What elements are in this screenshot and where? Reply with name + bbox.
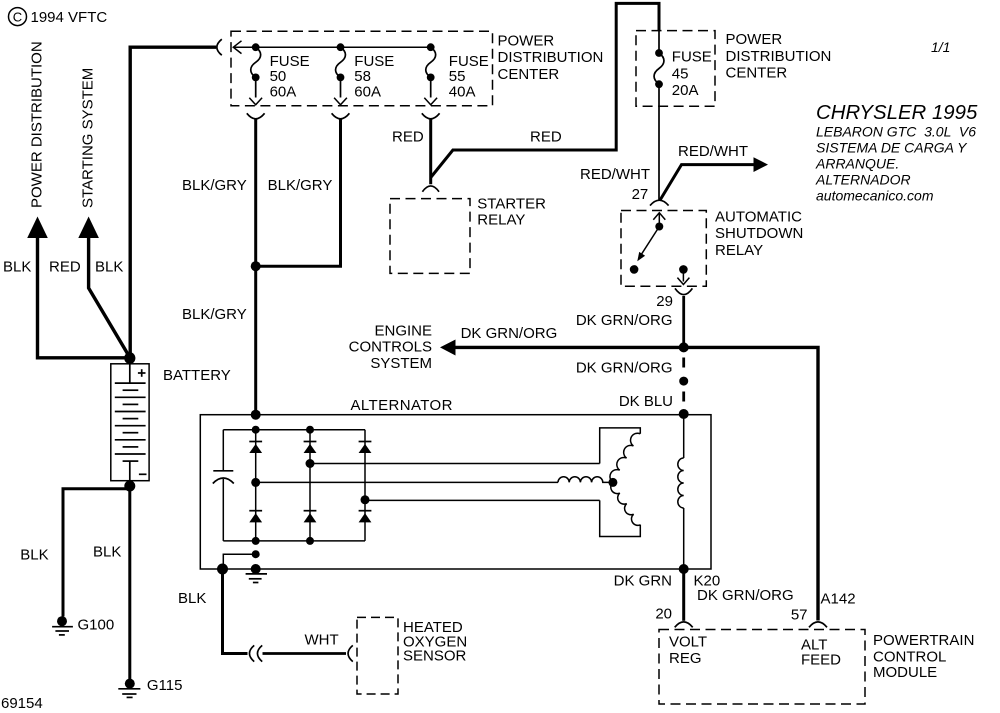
node top bus left	[252, 426, 260, 434]
wire BLK/GRY from fuse 50 to alternator	[254, 118, 257, 413]
svg-text:BLK: BLK	[3, 259, 31, 276]
connector pair in BLK/WHT wire	[249, 645, 262, 661]
svg-text:20A: 20A	[672, 82, 699, 99]
svg-text:STARTING SYSTEM: STARTING SYSTEM	[80, 68, 97, 208]
svg-text:DK GRN/ORG: DK GRN/ORG	[576, 359, 673, 376]
svg-text:FUSE: FUSE	[672, 49, 712, 66]
label ENGINE CONTROLS SYSTEM	[349, 323, 432, 372]
arrow to POWER DISTRIBUTION	[27, 217, 130, 358]
connector at volt reg pin 20	[675, 622, 693, 627]
svg-text:DK GRN/ORG: DK GRN/ORG	[697, 587, 794, 604]
wire PDC1 internal bus	[233, 46, 431, 48]
node stator center	[608, 478, 617, 487]
wire rectifier bottom bus	[223, 540, 365, 542]
svg-text:BLK: BLK	[20, 547, 48, 564]
wire DK GRN/ORG from ASD relay	[682, 296, 685, 347]
svg-text:1/1: 1/1	[931, 39, 950, 55]
svg-text:40A: 40A	[449, 83, 476, 100]
svg-text:CHRYSLER 1995: CHRYSLER 1995	[816, 102, 978, 124]
wire stator phase 2	[256, 481, 558, 483]
svg-text:DK GRN/ORG: DK GRN/ORG	[576, 312, 673, 329]
svg-text:27: 27	[632, 186, 649, 203]
label HEATED OXYGEN SENSOR	[403, 619, 467, 665]
svg-text:POWER DISTRIBUTION: POWER DISTRIBUTION	[29, 41, 46, 208]
svg-text:20: 20	[655, 606, 672, 623]
svg-text:BLK: BLK	[95, 259, 123, 276]
fuse 45 20A	[654, 31, 664, 88]
svg-text:DK GRN/ORG: DK GRN/ORG	[461, 325, 558, 342]
stator frame lower	[600, 500, 641, 536]
svg-text:ARRANQUE.: ARRANQUE.	[815, 156, 899, 172]
connector at starter relay	[422, 186, 439, 192]
svg-text:BLK: BLK	[178, 590, 206, 607]
svg-text:DISTRIBUTION: DISTRIBUTION	[498, 49, 604, 66]
svg-text:RED/WHT: RED/WHT	[678, 143, 748, 160]
wire dashed DK GRN/ORG to DK BLU	[679, 358, 689, 420]
connector below fuse 58	[332, 113, 350, 119]
label FUSE 45 20A	[672, 49, 712, 100]
svg-text:G115: G115	[147, 677, 183, 694]
svg-text:DK BLU: DK BLU	[619, 393, 673, 410]
node alternator case ground	[217, 564, 228, 575]
svg-text:BLK/GRY: BLK/GRY	[182, 306, 247, 323]
svg-text:POWERTRAIN: POWERTRAIN	[873, 632, 974, 649]
alternator box	[200, 415, 711, 569]
connector at PDC1 input	[217, 39, 222, 55]
svg-text:1994 VFTC: 1994 VFTC	[31, 9, 108, 26]
fuse 58 60A	[334, 43, 347, 105]
wire RED branch to PDC2	[431, 3, 659, 177]
svg-text:CONTROLS: CONTROLS	[349, 339, 432, 356]
svg-text:60A: 60A	[354, 83, 381, 100]
rectifier diode column 2	[304, 430, 317, 541]
connector at heated oxygen sensor	[348, 645, 353, 661]
svg-text:VOLT: VOLT	[669, 633, 707, 650]
svg-text:BLK/GRY: BLK/GRY	[182, 177, 247, 194]
ASD relay switch arm	[630, 227, 660, 274]
svg-text:WHT: WHT	[305, 632, 339, 649]
stator winding left	[558, 477, 613, 483]
svg-text:DISTRIBUTION: DISTRIBUTION	[726, 48, 832, 65]
svg-text:POWER: POWER	[726, 31, 783, 48]
svg-text:BLK/GRY: BLK/GRY	[268, 177, 333, 194]
ground G115	[118, 679, 140, 698]
wire ground stub inside alternator	[223, 550, 259, 569]
svg-text:RED: RED	[49, 259, 81, 276]
svg-text:RED: RED	[530, 128, 562, 145]
svg-text:FEED: FEED	[801, 652, 841, 669]
connector below fuse 55	[422, 113, 440, 119]
node BLK/GRY junction	[251, 261, 261, 271]
fuse 50 60A	[249, 43, 262, 105]
node rotor bottom	[679, 564, 689, 574]
label STARTER RELAY	[477, 195, 546, 228]
wire fuse 45 to ASD relay	[658, 88, 660, 200]
svg-text:45: 45	[672, 65, 689, 82]
svg-text:RED/WHT: RED/WHT	[580, 166, 650, 183]
wire BLK battery to G100	[63, 489, 130, 617]
connector at alt feed pin 57	[809, 622, 827, 627]
stator winding lower	[611, 482, 641, 525]
svg-text:MODULE: MODULE	[873, 664, 937, 681]
node battery positive junction	[124, 352, 135, 363]
svg-text:ENGINE: ENGINE	[374, 323, 432, 340]
node alternator B+ on box edge	[251, 410, 261, 420]
svg-text:G100: G100	[78, 616, 115, 633]
node bottom bus middle	[306, 537, 314, 545]
label POWER DISTRIBUTION CENTER 1	[498, 32, 604, 82]
wire BLK from alternator to connector	[223, 569, 248, 654]
svg-text:CENTER: CENTER	[726, 65, 788, 82]
wire stator phase 3	[365, 499, 600, 501]
svg-text:29: 29	[656, 293, 673, 310]
svg-text:LEBARON GTC 3.0L V6: LEBARON GTC 3.0L V6	[816, 124, 976, 140]
wire RED from fuse 55 to starter relay	[429, 118, 432, 184]
svg-text:CONTROL: CONTROL	[873, 649, 946, 666]
svg-text:REG: REG	[669, 650, 702, 667]
stator frame upper	[600, 428, 641, 464]
battery	[111, 353, 149, 492]
fuse 55 40A	[424, 43, 437, 105]
rectifier diode column 1	[249, 430, 262, 541]
svg-text:SYSTEM: SYSTEM	[370, 355, 432, 372]
copyright mark 1994 VFTC	[9, 8, 108, 26]
svg-text:DK GRN: DK GRN	[614, 573, 672, 590]
starter relay box	[390, 199, 470, 274]
svg-text:POWER: POWER	[498, 32, 555, 49]
svg-text:57: 57	[791, 607, 808, 624]
wire BLK battery to G115	[128, 486, 131, 679]
connector below ASD relay	[675, 288, 692, 294]
label ALT FEED	[801, 637, 841, 669]
svg-text:60A: 60A	[270, 83, 297, 100]
wire DK GRN/ORG to A142	[684, 347, 818, 620]
ground symbol alternator	[246, 574, 267, 583]
svg-text:SHUTDOWN: SHUTDOWN	[715, 225, 803, 242]
wire arrow to engine controls system	[440, 340, 684, 356]
node top bus middle	[306, 426, 314, 434]
label POWERTRAIN CONTROL MODULE	[873, 632, 974, 681]
wire battery feed to PDC1	[130, 47, 217, 358]
svg-text:ALTERNATOR: ALTERNATOR	[351, 397, 453, 414]
wire stator phase 1	[310, 463, 600, 465]
heated oxygen sensor box	[357, 617, 398, 694]
ground G100	[52, 616, 73, 635]
label POWER DISTRIBUTION CENTER 2	[726, 31, 832, 82]
automatic shutdown relay box	[621, 211, 706, 287]
powertrain control module box	[659, 630, 865, 705]
power distribution center box 2	[636, 31, 715, 107]
arrow to STARTING SYSTEM	[78, 217, 130, 358]
ASD relay pin 27 arrow	[653, 213, 665, 231]
wire WHT to heated oxygen sensor	[263, 652, 347, 655]
svg-text:A142: A142	[821, 591, 856, 608]
bus arrowhead pointing left	[233, 41, 241, 54]
capacitor C1	[213, 430, 234, 541]
wire BLK/GRY from fuse 58	[259, 118, 341, 266]
title block CHRYSLER 1995	[815, 102, 978, 204]
label AUTOMATIC SHUTDOWN RELAY	[715, 209, 803, 259]
svg-text:BLK: BLK	[93, 544, 121, 561]
power distribution center box 1	[231, 31, 493, 105]
svg-text:SENSOR: SENSOR	[403, 648, 467, 665]
svg-text:automecanico.com: automecanico.com	[816, 188, 934, 204]
connector at ASD relay input	[650, 200, 669, 205]
svg-text:AUTOMATIC: AUTOMATIC	[715, 209, 802, 226]
svg-text:BATTERY: BATTERY	[163, 367, 231, 384]
rectifier diode column 3	[359, 430, 372, 541]
label VOLT REG	[669, 633, 707, 667]
stator winding upper	[610, 433, 640, 482]
rotor field winding	[678, 415, 684, 569]
node bottom bus left	[252, 537, 260, 545]
svg-text:ALTERNADOR: ALTERNADOR	[815, 172, 911, 188]
node DK GRN/ORG junction	[679, 342, 689, 352]
wire rectifier top bus	[223, 429, 365, 431]
svg-text:SISTEMA DE CARGA Y: SISTEMA DE CARGA Y	[816, 140, 968, 156]
connector below fuse 50	[247, 113, 265, 119]
node alternator ground on box edge	[251, 564, 261, 574]
svg-text:69154: 69154	[1, 695, 43, 712]
label FUSE 55 40A	[449, 53, 489, 101]
label FUSE 50 60A	[270, 53, 310, 101]
svg-text:C: C	[13, 9, 22, 24]
wire DK GRN rotor to volt reg	[682, 569, 685, 621]
label FUSE 58 60A	[354, 53, 394, 101]
svg-text:STARTER: STARTER	[477, 195, 546, 212]
svg-text:CENTER: CENTER	[498, 66, 560, 83]
ASD relay pin 29	[677, 265, 689, 284]
svg-text:RELAY: RELAY	[477, 211, 525, 228]
wire RED/WHT arrow out	[660, 157, 768, 200]
svg-text:RELAY: RELAY	[715, 242, 763, 259]
svg-text:RED: RED	[392, 128, 424, 145]
